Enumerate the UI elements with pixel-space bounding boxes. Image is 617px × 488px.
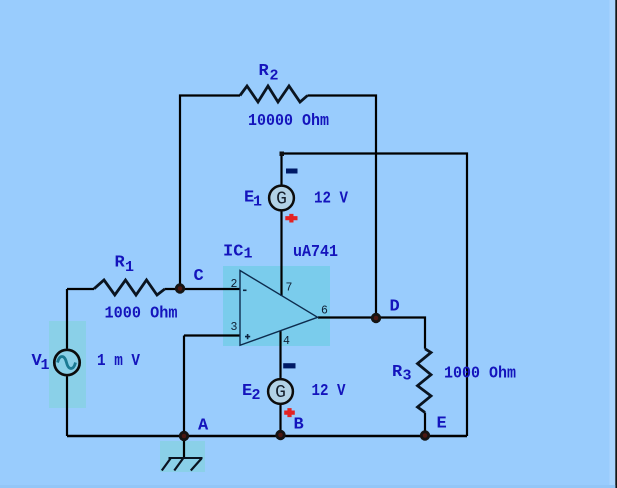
svg-text:A: A — [198, 417, 209, 436]
svg-text:C: C — [194, 267, 204, 286]
svg-text:4: 4 — [283, 335, 290, 348]
svg-text:10000 Ohm: 10000 Ohm — [248, 112, 329, 131]
svg-text:D: D — [390, 298, 400, 317]
svg-text:12 V: 12 V — [312, 382, 347, 401]
svg-text:G: G — [275, 383, 286, 403]
svg-text:E: E — [437, 415, 447, 434]
svg-text:6: 6 — [321, 305, 328, 318]
svg-text:1: 1 — [253, 194, 262, 211]
svg-text:B: B — [294, 416, 304, 435]
svg-text:1: 1 — [244, 246, 253, 263]
svg-text:1: 1 — [41, 357, 50, 374]
svg-text:1000 Ohm: 1000 Ohm — [105, 305, 178, 324]
svg-text:2: 2 — [252, 387, 261, 404]
svg-text:IC: IC — [223, 243, 243, 262]
svg-text:R: R — [115, 254, 126, 273]
svg-text:3: 3 — [403, 368, 412, 385]
svg-text:G: G — [276, 190, 287, 210]
svg-text:2: 2 — [231, 278, 238, 291]
svg-text:2: 2 — [270, 68, 279, 85]
svg-text:uA741: uA741 — [293, 243, 338, 262]
svg-text:1 m V: 1 m V — [97, 352, 141, 371]
svg-text:1: 1 — [125, 259, 134, 276]
svg-text:R: R — [259, 62, 270, 81]
svg-text:7: 7 — [286, 282, 293, 295]
svg-text:3: 3 — [231, 321, 238, 334]
svg-text:1000 Ohm: 1000 Ohm — [444, 365, 516, 384]
svg-text:R: R — [392, 363, 403, 382]
svg-text:12 V: 12 V — [314, 190, 349, 209]
